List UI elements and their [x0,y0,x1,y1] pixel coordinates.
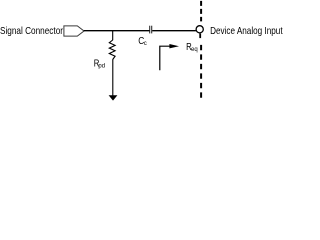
capacitor C_c left plate [149,26,151,34]
dashed device boundary above circle [200,1,202,22]
wire capacitor to terminal circle [152,30,196,32]
svg-text:eq: eq [191,47,198,53]
svg-text:c: c [144,41,147,47]
svg-text:pd: pd [98,64,105,70]
wire resistor to ground arrow [112,59,114,96]
stub below terminal circle [199,34,201,39]
terminal circle (device analog input pin) [196,26,203,33]
dashed device boundary below circle [200,45,202,99]
R_eq measurement bent arrow [160,46,171,70]
wire connector to capacitor [84,30,150,32]
svg-text:Device Analog Input: Device Analog Input [210,26,283,37]
R_eq arrowhead [169,44,179,48]
svg-text:Signal Connector: Signal Connector [0,26,64,37]
ground arrow (common) [109,95,118,100]
wire junction drop to resistor [112,31,114,41]
connector J1 (signal connector symbol) [64,26,84,36]
capacitor C_c right plate [151,26,153,34]
resistor R_pd zigzag [109,40,115,60]
